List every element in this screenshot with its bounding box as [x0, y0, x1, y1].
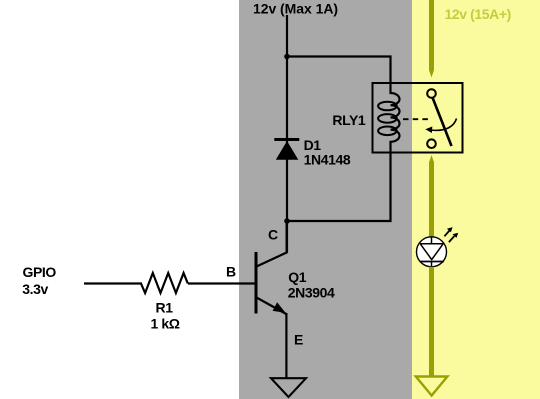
heavy rail switch to LED: [429, 162, 434, 239]
svg-text:B: B: [226, 263, 236, 279]
LED triangle: [420, 244, 444, 260]
gray low-current 12v region: [239, 0, 412, 399]
transistor Q1 emitter arrow: [273, 302, 286, 313]
svg-text:E: E: [294, 332, 303, 348]
relay coil loop 2: [378, 114, 397, 123]
svg-text:1 kΩ: 1 kΩ: [151, 316, 180, 332]
relay switch blade: [433, 98, 452, 147]
relay coil loop 3: [378, 127, 397, 136]
LED cathode stub: [431, 262, 433, 267]
heavy rail LED to ground: [429, 267, 434, 376]
junction dot top: [284, 54, 290, 60]
LED light arrow 1: [444, 227, 452, 236]
svg-text:RLY1: RLY1: [332, 112, 366, 128]
relay common terminal: [427, 89, 436, 98]
relay NO terminal: [427, 139, 436, 148]
relay coil bumps: [391, 83, 400, 153]
wire collector node to relay coil bottom: [287, 152, 391, 221]
relay RLY1 box: [373, 83, 463, 153]
resistor R1 zigzag: [141, 273, 188, 293]
junction dot collector node: [284, 218, 290, 224]
svg-text:C: C: [268, 226, 278, 242]
svg-text:12v (Max 1A): 12v (Max 1A): [253, 1, 338, 17]
heavy 12v rail top segment: [429, 0, 434, 70]
svg-text:R1: R1: [156, 300, 174, 316]
ground symbol logic side: [271, 378, 306, 397]
heavy rail tip below switch: [429, 155, 434, 163]
LED cathode bar: [420, 261, 444, 263]
svg-text:2N3904: 2N3904: [288, 285, 335, 301]
svg-text:12v (15A+): 12v (15A+): [445, 6, 511, 22]
wire GPIO to resistor: [84, 282, 142, 284]
diode D1 cathode bar: [274, 138, 299, 141]
svg-text:1N4148: 1N4148: [304, 151, 351, 167]
wire resistor to base: [188, 282, 255, 284]
label Q1 2N3904: [288, 269, 335, 301]
svg-text:GPIO: GPIO: [23, 264, 57, 280]
LED anode stub: [431, 237, 433, 244]
wire emitter to ground: [285, 313, 287, 378]
label D1 1N4148: [304, 137, 351, 167]
relay switch arrowhead: [425, 127, 432, 134]
svg-text:Q1: Q1: [288, 269, 306, 285]
diode D1 triangle: [276, 141, 299, 160]
ground symbol high-current side: [416, 377, 448, 396]
transistor Q1 emitter lead: [257, 298, 287, 315]
LED body circle: [417, 237, 447, 267]
relay coil loop 1: [378, 102, 397, 111]
wire top branch to relay coil: [287, 57, 391, 85]
label GPIO 3.3v: [22, 264, 56, 297]
svg-text:3.3v: 3.3v: [22, 281, 48, 297]
transistor Q1 collector lead: [257, 221, 287, 267]
relay actuation dashed line: [403, 118, 430, 120]
heavy rail top taper tip: [429, 70, 434, 78]
LED light arrow 2: [449, 233, 458, 242]
relay switch arrow arc: [430, 119, 457, 131]
yellow high-current 12v region: [412, 0, 540, 399]
wire 12v rail down to collector node: [286, 15, 288, 253]
transistor Q1 base bar: [255, 252, 258, 314]
